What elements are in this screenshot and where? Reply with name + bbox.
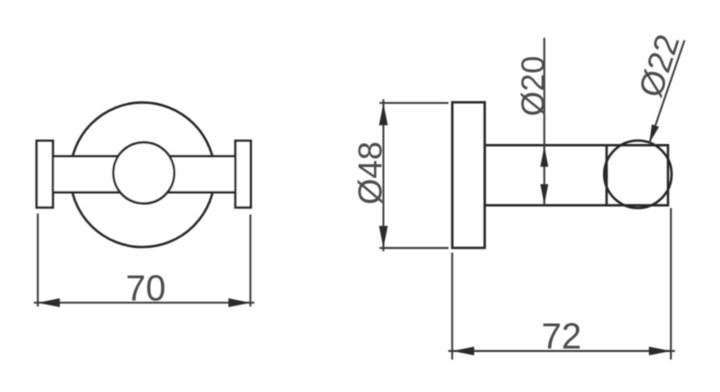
dimension Ø20: top arrowhead (540, 146, 548, 167)
dimension Ø48: dimension line (382, 99, 384, 251)
front view: right hook cap (235, 141, 250, 208)
dimension Ø48: top extension line (380, 102, 449, 104)
dimension 70: right arrowhead (228, 298, 250, 307)
dimension Ø22: leader arrowhead (649, 124, 659, 143)
side view: hook post (485, 145, 668, 205)
side view: neck groove line (605, 145, 607, 205)
dimension Ø22: leader line (649, 40, 684, 143)
front view: left hook cap (37, 141, 53, 208)
dimension Ø20: bottom arrowhead (540, 184, 548, 205)
dimension Ø20: dimension line (543, 38, 545, 206)
side view: wall plate (452, 102, 484, 248)
svg-text:Ø20: Ø20 (515, 56, 551, 116)
dimension 72: dimension line (448, 350, 675, 352)
dimension Ø48: bottom extension line (380, 247, 449, 249)
front view: hook bar body (occludes plate circle) (53, 156, 236, 192)
dimension 70: left extension line (37, 214, 39, 307)
front view: center knob circle (113, 142, 174, 203)
dimension 72: left extension line (451, 253, 453, 360)
svg-text:Ø48: Ø48 (353, 141, 390, 204)
dimension 70: dimension line (34, 302, 255, 304)
dimension 72: right arrowhead (649, 347, 671, 356)
dimension 72: right extension line (670, 208, 672, 360)
front view: mounting plate circle (70, 103, 215, 248)
dimension 70: right extension line (249, 215, 251, 307)
side view: hook ball (604, 141, 671, 208)
dimension Ø48: top arrowhead (379, 103, 388, 125)
svg-text:72: 72 (541, 316, 581, 357)
dimension Ø48: bottom arrowhead (379, 226, 388, 248)
svg-text:70: 70 (126, 268, 166, 309)
dimension 72: left arrowhead (452, 347, 474, 356)
dimension 70: left arrowhead (38, 298, 60, 307)
